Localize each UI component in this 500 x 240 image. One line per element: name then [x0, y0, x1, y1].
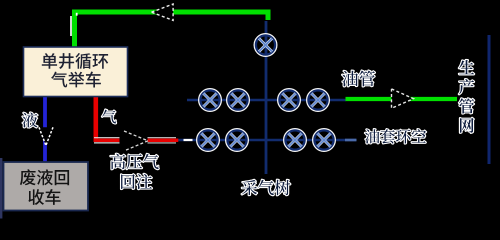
- valve V8 (row 2): [284, 129, 306, 151]
- valve V4 (row 1): [278, 89, 300, 111]
- label 油管 (oil tubing): [342, 71, 375, 87]
- wire: red high-pressure gas line (horizontal segments): [94, 139, 120, 143]
- wire: production network vertical line: [488, 35, 491, 164]
- valve V7 (row 2): [226, 129, 248, 151]
- valve V3 (row 1): [227, 89, 249, 111]
- valve V1 (tree top): [255, 34, 277, 56]
- white notch at green corner: [76, 13, 78, 16]
- light segment at row 2 right end: [345, 139, 357, 142]
- label 高压气 (high pressure gas): [110, 154, 158, 169]
- label 气 (gas): [102, 110, 116, 124]
- valve V6 (row 2): [197, 129, 219, 151]
- label 液 (liquid): [23, 113, 38, 128]
- arrow on oil pipe (pointing right): [392, 89, 414, 108]
- box: 单井循环气举车 (gas lift truck): [24, 47, 128, 97]
- wire: red high-pressure gas line (vertical): [94, 97, 99, 142]
- label 油套环空 (casing annulus): [365, 129, 426, 143]
- arrow on top green pipe (pointing left): [152, 4, 174, 20]
- label 采气树 (christmas tree): [242, 180, 291, 195]
- label 生产管网 (production network): [459, 60, 474, 133]
- valve V5 (row 1): [307, 89, 329, 111]
- wire: blue liquid line: [43, 97, 47, 162]
- wire: green gas pipe from truck top to tree: [75, 12, 269, 47]
- white edges along red horizontal: [94, 137, 120, 139]
- wire: row 2 horizontal line (casing annulus): [178, 139, 356, 142]
- wire: row 1 horizontal line (oil tubing): [187, 99, 346, 102]
- leader arrow (open dashed chevron) to red line: [124, 131, 148, 151]
- wire: green oil pipe to network: [346, 97, 458, 101]
- left edge strip: [0, 158, 2, 219]
- white dash on row 2 left: [184, 139, 193, 141]
- white highlight left of green vertical: [70, 16, 72, 36]
- wire: tree vertical line: [265, 21, 268, 174]
- valve V9 (row 2): [313, 129, 335, 151]
- label 回注 (reinjection): [121, 174, 152, 189]
- valve V2 (row 1): [199, 89, 221, 111]
- box: 废液回收车 (waste liquid recovery truck): [4, 162, 89, 211]
- arrow on liquid line (pointing down): [39, 127, 53, 145]
